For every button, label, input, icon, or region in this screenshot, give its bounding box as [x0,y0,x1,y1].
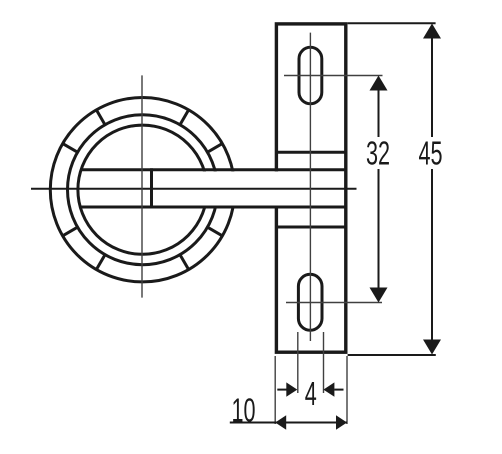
horizontal centerline [31,188,357,190]
ring tick 330deg [208,227,223,236]
plate width extension line right [346,356,348,424]
dimension line 10 [230,422,347,424]
ring tick 240deg [96,255,105,270]
bottom slot horizontal centerline [286,302,382,304]
text mask 32 [363,137,394,169]
arrow 10 right [336,415,347,429]
ring tick 120deg [96,110,105,125]
dimension 4 right stub [334,389,343,391]
plate bottom extension line [348,354,436,356]
bottom slot [298,274,322,330]
plate outline [276,24,345,352]
top slot [299,47,322,104]
top slot horizontal centerline [284,75,383,77]
rod end line [150,168,153,208]
arrow 45 bottom [423,340,441,355]
ring tick 210deg [63,227,78,236]
vertical centerline of ring [141,75,143,297]
svg-text:4: 4 [305,375,317,412]
plate vertical centerline [309,33,311,341]
arm white body masking ring and plate left edge [84,171,344,205]
plate tab lower edge [276,226,345,229]
dimension line 45 [431,38,433,339]
arm top edge [81,168,346,171]
svg-text:10: 10 [231,392,255,429]
arrow 45 top [423,24,441,39]
ring tick 300deg [180,255,189,270]
text mask 45 [414,137,448,169]
svg-text:32: 32 [366,135,390,172]
slot width extension line left [297,332,299,393]
arrow 4 left [286,382,297,396]
plate top extension line [348,22,436,24]
plate width extension line left [274,356,276,424]
arm bottom edge [80,206,345,209]
arrow 4 right [323,382,334,396]
clamp ring inner circle [78,125,207,254]
clamp ring outer circle [50,98,234,282]
arrow 10 left [275,415,286,429]
ring tick 30deg [208,144,223,153]
dimension 4 left stub [277,389,286,391]
arrow 32 bottom [370,288,388,303]
dimension line 32 [378,90,380,287]
svg-text:45: 45 [418,135,442,172]
arrow 32 top [370,76,388,91]
ring tick 150deg [63,144,78,153]
slot width extension line right [323,332,325,393]
ring tick 60deg [180,110,189,125]
clamp ring middle circle [68,115,218,265]
plate tab upper edge [276,151,345,154]
